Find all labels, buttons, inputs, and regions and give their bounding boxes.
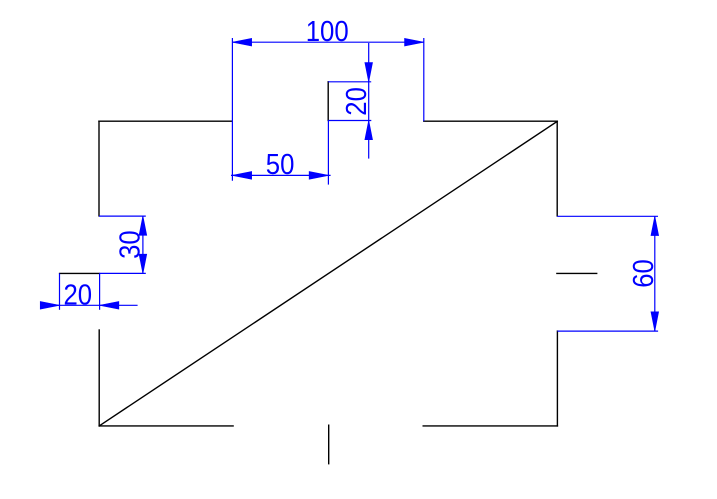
dim 20 left: extension line left	[59, 273, 61, 309]
edge right upper vertical	[556, 121, 558, 216]
dim 20 top: dimension line vertical	[368, 43, 370, 159]
arrow dim20top upper (outside, points down)	[365, 63, 373, 82]
dim 60 extension line lower	[557, 330, 658, 332]
svg-text:100: 100	[306, 16, 349, 48]
edge left step horizontal	[60, 272, 100, 274]
svg-text:30: 30	[114, 230, 146, 259]
dim 20 top: extension line upper	[328, 81, 371, 83]
svg-text:60: 60	[628, 259, 660, 288]
arrow dim100 right	[405, 38, 424, 46]
dim 50 extension line right	[327, 121, 329, 185]
arrow dim50 right	[309, 172, 328, 180]
svg-text:20: 20	[64, 279, 93, 311]
dash bottom middle vertical	[328, 425, 330, 464]
arrow dim100 left	[232, 38, 251, 46]
arrow dim60 lower (points down)	[651, 312, 659, 331]
dim 30 extension line lower	[99, 272, 145, 274]
dim 100 dimension line	[232, 41, 423, 43]
arrow dim20left left (outside, points right)	[40, 302, 59, 310]
edge top-left horizontal	[99, 120, 232, 122]
svg-text:20: 20	[341, 87, 373, 116]
dim 20 top: extension line lower	[328, 120, 371, 122]
dim 20 left: dimension line	[40, 304, 138, 306]
arrow dim30 upper (points up)	[139, 216, 147, 235]
dim 30 extension line upper	[99, 215, 146, 217]
dash right side horizontal	[557, 272, 597, 274]
edge left upper vertical	[98, 121, 100, 216]
arrow dim20left right (outside, points left)	[100, 302, 119, 310]
edge left lower vertical	[98, 330, 100, 426]
edge top-right horizontal	[424, 120, 557, 122]
edge right lower vertical	[556, 331, 558, 426]
edge notch vertical (measured by top 20 dim)	[327, 82, 329, 121]
dim 50 dimension line	[231, 174, 331, 176]
arrow dim20top lower (outside, points up)	[365, 121, 373, 140]
dim 100 extension line right	[423, 38, 425, 121]
svg-text:50: 50	[266, 149, 295, 181]
dim 20 left: extension line right	[99, 273, 101, 309]
arrow dim30 lower (points down)	[139, 254, 147, 273]
dim 30 dimension line vertical	[142, 216, 144, 273]
dim 60 extension line upper	[557, 215, 658, 217]
dim 100 extension line left	[231, 38, 233, 181]
arrow dim50 left	[232, 172, 251, 180]
edge bottom-left horizontal	[99, 425, 233, 427]
edge bottom-right horizontal	[423, 425, 557, 427]
diagonal line	[99, 121, 557, 426]
arrow dim60 upper (points up)	[651, 216, 659, 235]
dim 60 dimension line vertical	[654, 216, 656, 331]
